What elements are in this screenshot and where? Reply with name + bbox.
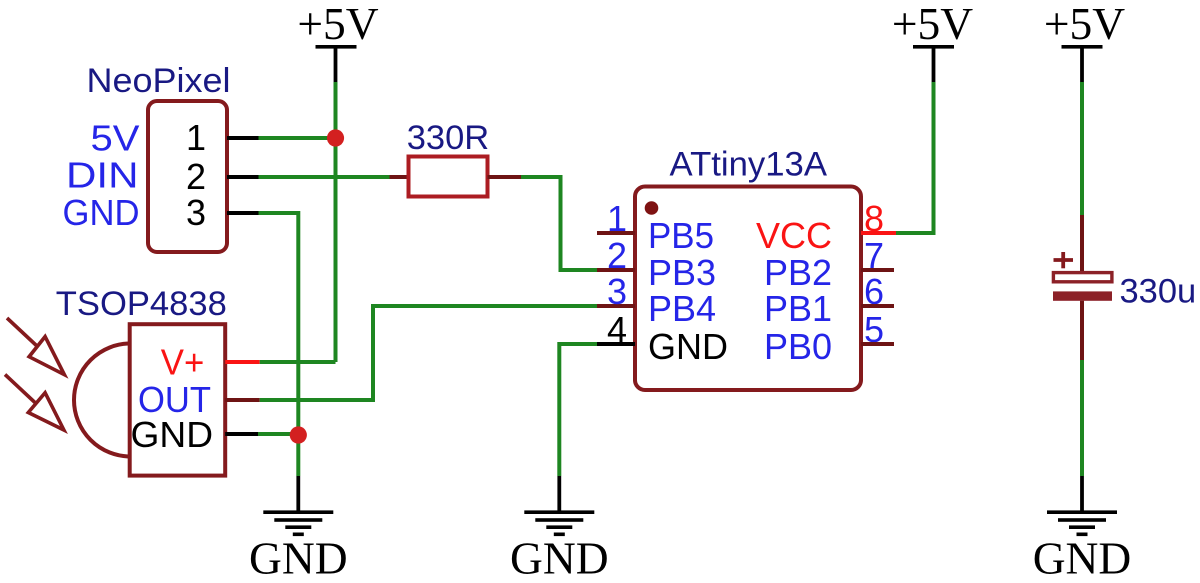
svg-text:PB2: PB2 — [764, 252, 832, 293]
svg-text:330R: 330R — [407, 119, 489, 157]
junction dot at +5V rail — [327, 129, 344, 146]
U1 pin1 marker dot — [645, 201, 659, 215]
svg-text:TSOP4838: TSOP4838 — [56, 285, 227, 323]
TSOP V+ stub — [225, 360, 260, 364]
ground symbol G2 — [510, 476, 609, 583]
TSOP OUT stub — [225, 398, 260, 402]
TSOP U2 dome — [74, 344, 130, 457]
U1 pin 7 stub — [861, 268, 894, 272]
wire junction to ground — [296, 434, 300, 476]
power +5V symbol P1 — [297, 0, 378, 82]
svg-text:2: 2 — [607, 235, 627, 276]
J1 pin 1 stub — [227, 136, 259, 140]
wire pin4 to ground — [559, 344, 597, 476]
wire DIN to resistor — [259, 175, 390, 179]
wire V+ to +5V rail — [260, 360, 336, 364]
svg-text:GND: GND — [63, 192, 140, 233]
svg-text:+5V: +5V — [1044, 0, 1125, 49]
svg-text:+5V: +5V — [892, 0, 973, 49]
power +5V symbol P2 — [892, 0, 973, 82]
capacitor C1 top plate — [1053, 273, 1112, 282]
capacitor C1 plus sign — [1054, 252, 1074, 268]
J1 pin 2 stub — [227, 175, 259, 179]
svg-text:PB3: PB3 — [648, 252, 716, 293]
svg-text:PB4: PB4 — [648, 288, 716, 329]
junction dot at ground rail — [290, 426, 307, 443]
capacitor C1 bottom plate — [1053, 291, 1112, 300]
svg-text:GND: GND — [1033, 533, 1132, 583]
IR arrow 1 — [7, 318, 64, 375]
wire capacitor to ground — [1080, 360, 1084, 476]
svg-text:2: 2 — [186, 156, 206, 197]
svg-text:330u: 330u — [1120, 273, 1197, 311]
wire +5V P3 to capacitor — [1080, 82, 1084, 215]
wire pin1 to +5V — [259, 136, 336, 140]
wire TSOP GND to junction — [258, 432, 298, 436]
svg-text:V+: V+ — [161, 342, 205, 383]
wire resistor to ATtiny pin2 — [521, 177, 597, 270]
wire pin8 to +5V P2 — [896, 82, 934, 233]
svg-text:3: 3 — [186, 192, 206, 233]
svg-text:PB5: PB5 — [648, 215, 714, 256]
svg-text:3: 3 — [607, 271, 627, 312]
ground symbol G1 — [249, 476, 348, 583]
svg-text:GND: GND — [131, 414, 214, 455]
U1 pin 5 stub — [861, 342, 894, 346]
resistor R1 right lead — [488, 175, 522, 179]
svg-text:VCC: VCC — [756, 215, 832, 256]
power +5V symbol P3 — [1044, 0, 1125, 82]
TSOP GND stub — [225, 432, 258, 436]
svg-text:GND: GND — [648, 326, 728, 367]
ground symbol G3 — [1033, 476, 1132, 583]
TSOP U2 body — [130, 324, 226, 475]
U1 pin 2 stub — [597, 268, 635, 272]
svg-text:4: 4 — [607, 309, 627, 350]
svg-text:DIN: DIN — [66, 155, 139, 196]
connector J1 NeoPixel body — [148, 101, 227, 252]
svg-text:PB1: PB1 — [764, 288, 832, 329]
IC U1 body — [635, 187, 861, 391]
svg-text:NeoPixel: NeoPixel — [87, 62, 231, 100]
IR arrow 2 — [5, 375, 64, 431]
svg-text:GND: GND — [249, 533, 348, 583]
resistor R1 body — [409, 157, 488, 197]
svg-text:1: 1 — [186, 117, 206, 158]
svg-text:1: 1 — [607, 198, 627, 239]
svg-text:5V: 5V — [91, 118, 140, 159]
svg-text:GND: GND — [510, 533, 609, 583]
wire +5V P1 down to TSOP V+ — [334, 82, 338, 362]
U1 pin 4 stub — [597, 342, 635, 346]
U1 pin 1 stub — [597, 231, 635, 235]
resistor R1 left lead — [390, 175, 410, 179]
wire NeoPixel pin3 down — [259, 213, 299, 434]
wire OUT to ATtiny pin3 — [260, 306, 597, 400]
J1 pin 3 stub — [227, 211, 259, 215]
U1 pin 3 stub — [597, 304, 635, 308]
svg-text:ATtiny13A: ATtiny13A — [670, 146, 828, 184]
svg-text:+5V: +5V — [297, 0, 378, 49]
capacitor C1 bottom lead — [1080, 301, 1084, 360]
svg-text:PB0: PB0 — [764, 326, 832, 367]
capacitor C1 top lead — [1080, 215, 1084, 273]
U1 pin 8 stub — [861, 231, 896, 235]
U1 pin 6 stub — [861, 304, 894, 308]
